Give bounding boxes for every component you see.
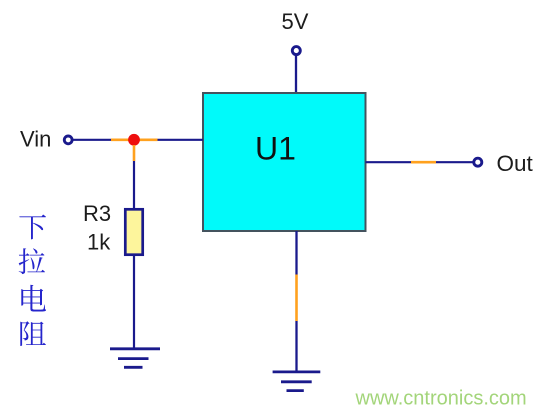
- wire junction to U1 left pin (navy): [158, 139, 204, 141]
- wire resistor R3 to ground: [133, 256, 135, 348]
- wire Vin terminal to junction (navy): [72, 139, 111, 141]
- wire to bottom ground (navy): [295, 321, 297, 371]
- svg-text:www.cntronics.com: www.cntronics.com: [355, 388, 527, 410]
- wire 5V to U1 top pin: [295, 55, 297, 93]
- terminal Vin (open circle pin): [64, 136, 72, 144]
- annotation character 阻: [20, 321, 46, 346]
- svg-text:1k: 1k: [87, 230, 111, 255]
- wire to Out terminal (navy): [436, 161, 474, 163]
- svg-text:Vin: Vin: [20, 127, 51, 152]
- ground (below R3): [110, 349, 160, 368]
- svg-text:R3: R3: [83, 201, 111, 226]
- wire highlighted segment right of junction (orange): [139, 139, 158, 142]
- wire highlighted segment bottom (orange): [295, 275, 298, 322]
- svg-text:U1: U1: [255, 131, 296, 167]
- annotation character 下 (pull-down label): [19, 215, 46, 240]
- annotation character 电: [21, 285, 46, 312]
- wire U1 bottom pin (navy): [295, 231, 297, 275]
- svg-text:Out: Out: [497, 151, 534, 176]
- wire highlighted segment left of junction (orange): [111, 139, 129, 142]
- ground (below U1): [273, 372, 321, 391]
- annotation character 拉: [19, 248, 45, 274]
- terminal Out (open circle pin): [474, 158, 482, 166]
- resistor R3 body: [125, 209, 142, 254]
- wire junction down (orange segment): [133, 145, 136, 161]
- wire U1 right pin (navy): [366, 161, 412, 163]
- svg-text:5V: 5V: [282, 9, 309, 34]
- wire highlighted segment on output (orange): [411, 161, 436, 164]
- junction node (red dot): [128, 134, 140, 146]
- terminal 5V (open circle pin): [292, 47, 300, 55]
- wire down to resistor R3 (navy): [133, 161, 135, 208]
- IC U1 body: [203, 93, 366, 231]
